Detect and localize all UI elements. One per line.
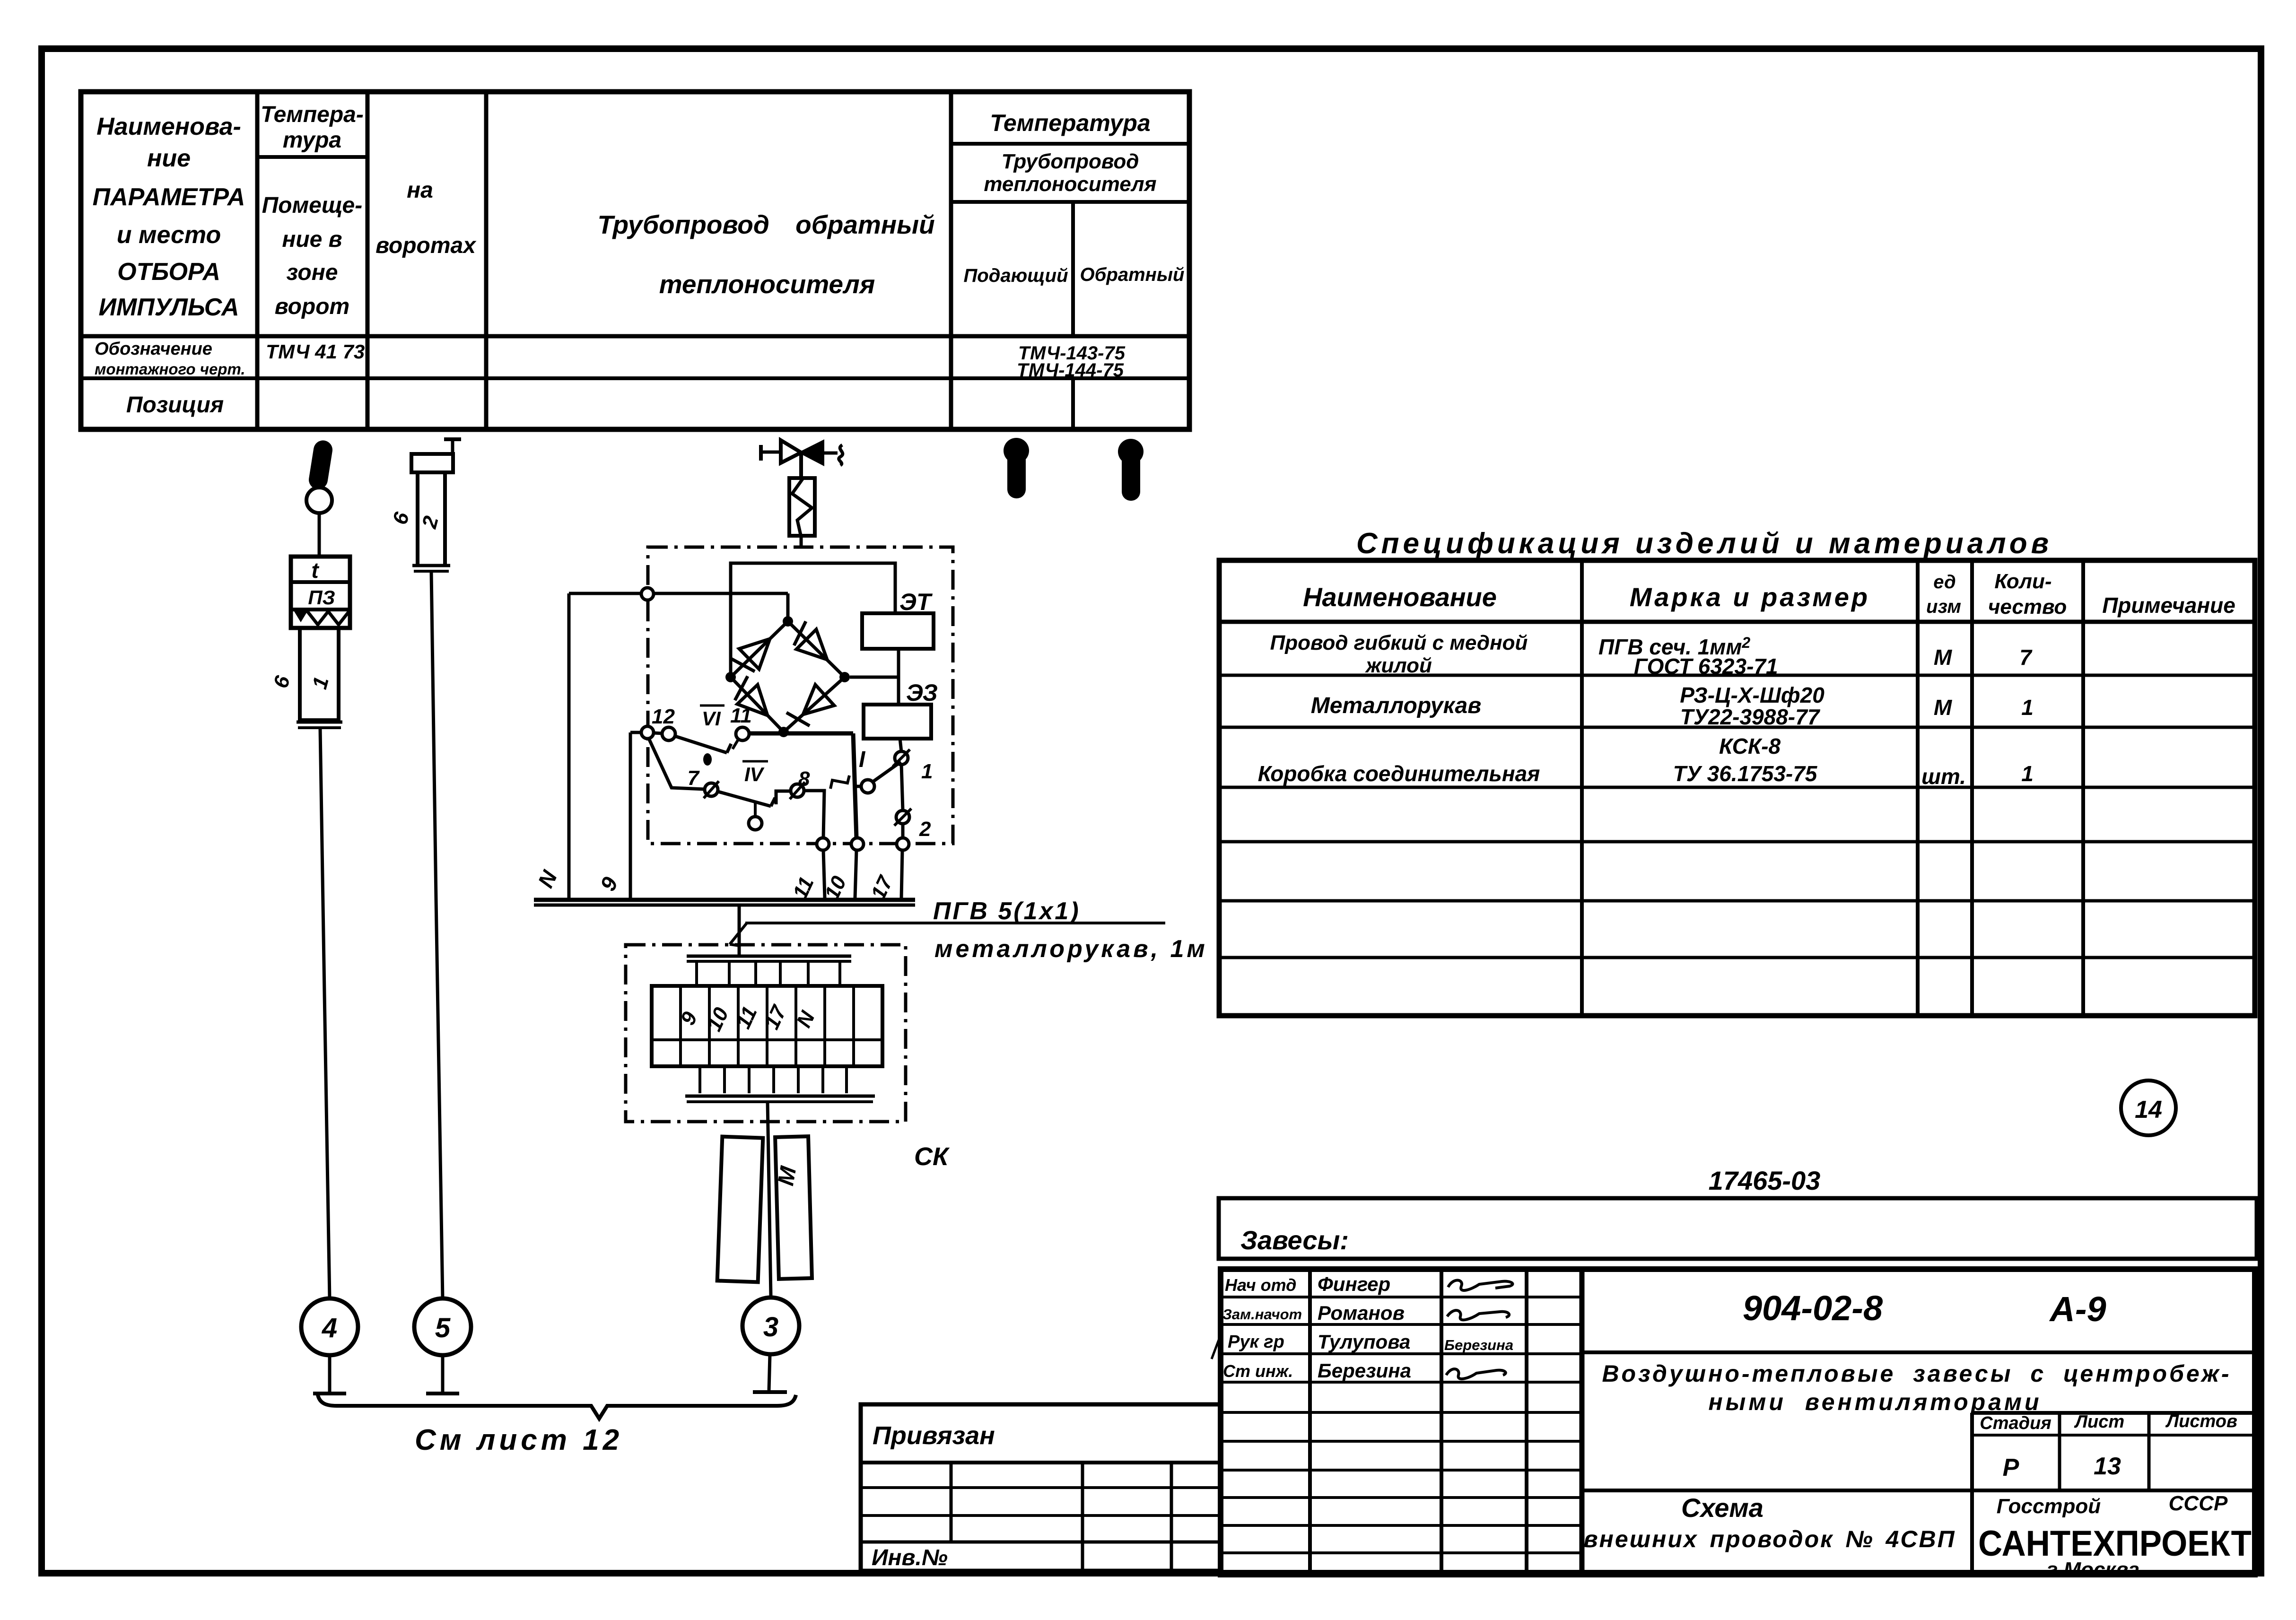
svg-text:Спецификация изделий и материа: Спецификация изделий и материалов	[1356, 527, 2052, 560]
switch I open contact	[861, 780, 874, 793]
svg-text:ПГВ 5(1х1): ПГВ 5(1х1)	[933, 897, 1081, 925]
G1: top-left parameters table	[81, 92, 1189, 429]
svg-text:7: 7	[2019, 645, 2033, 670]
G3: valve and control box schematic	[533, 440, 953, 903]
svg-text:Березина: Березина	[1444, 1337, 1513, 1353]
column line c1/c2	[255, 92, 260, 429]
wire ET to EZ	[897, 649, 900, 705]
wire to position circle 4	[320, 729, 330, 1298]
svg-text:17465-03: 17465-03	[1709, 1166, 1821, 1195]
svg-text:внешних проводок № 4СВП: внешних проводок № 4СВП	[1583, 1526, 1956, 1552]
junction 10	[851, 838, 864, 850]
col5 divider in poziciya row	[1071, 378, 1075, 429]
svg-text:11: 11	[730, 704, 752, 727]
svg-text:Привязан: Привязан	[873, 1421, 995, 1450]
G5: spec table	[1219, 527, 2255, 1016]
svg-text:Коробка соединительная: Коробка соединительная	[1258, 761, 1540, 786]
strip top stubs	[697, 961, 840, 986]
privyazan table	[861, 1404, 1221, 1571]
contact VI blade	[675, 736, 727, 753]
svg-text:зоне: зоне	[287, 260, 338, 285]
svg-text:Провод гибкий с медной: Провод гибкий с медной	[1270, 631, 1528, 654]
main contact row wire	[749, 732, 853, 736]
signature squiggle 1	[1448, 1280, 1513, 1290]
svg-text:ТУ22-3988-77: ТУ22-3988-77	[1680, 705, 1821, 729]
sensor B1 stem circle	[306, 488, 332, 513]
svg-text:I: I	[859, 747, 866, 772]
svg-text:Ст инж.: Ст инж.	[1223, 1361, 1293, 1381]
svg-text:Обратный: Обратный	[1080, 264, 1185, 285]
svg-text:тура: тура	[283, 128, 341, 153]
diode VD4 (right-bottom arm)	[803, 685, 834, 714]
svg-text:13: 13	[2094, 1453, 2121, 1480]
svg-text:ЭТ: ЭТ	[899, 589, 933, 615]
spec row 2	[1311, 683, 2034, 729]
wire 17 to bus	[901, 850, 902, 898]
wire 10 to bus	[855, 850, 856, 898]
svg-text:шт.: шт.	[1921, 764, 1966, 789]
svg-text:РЗ-Ц-Х-Шф20: РЗ-Ц-Х-Шф20	[1680, 683, 1825, 707]
svg-text:М: М	[1934, 645, 1953, 670]
svg-text:Р: Р	[2003, 1454, 2019, 1481]
svg-text:VI: VI	[702, 707, 721, 730]
position circle 14	[2121, 1080, 2176, 1135]
spec row lines	[1219, 674, 2255, 677]
wire 9 exit	[630, 731, 641, 734]
cable drop to junction box	[738, 905, 741, 956]
svg-text:Романов: Романов	[1318, 1302, 1405, 1324]
vertical to junction 10	[853, 733, 856, 838]
G2: sensors left	[269, 438, 1144, 1456]
title block frame	[1221, 1269, 2255, 1575]
valve actuator box	[789, 478, 815, 536]
junction on dash-dot edge	[641, 588, 654, 600]
small tick mark	[830, 775, 849, 789]
svg-text:ние в: ние в	[282, 227, 342, 252]
svg-text:ед: ед	[1933, 572, 1956, 592]
relay EZ box	[864, 705, 931, 739]
strip top rail	[687, 955, 851, 958]
svg-text:1: 1	[921, 760, 933, 783]
cable arrow tick	[730, 923, 747, 946]
zigzag contact symbol	[294, 611, 307, 622]
svg-text:Марка и размер: Марка и размер	[1630, 582, 1870, 612]
svg-text:Обозначение: Обозначение	[95, 339, 212, 359]
sensor B2 head box	[411, 454, 453, 472]
wire EZ to terminal 1	[900, 739, 901, 752]
svg-text:Помеще-: Помеще-	[262, 193, 362, 218]
bridge nodes	[783, 616, 793, 627]
svg-text:Примечание: Примечание	[2102, 593, 2235, 618]
stem box bottom double bar	[297, 721, 342, 724]
svg-text:СК: СК	[914, 1142, 950, 1171]
line under project number	[1582, 1350, 2255, 1354]
header bottom line	[81, 334, 1189, 339]
relay ET box	[862, 613, 934, 649]
svg-text:Трубопровод обратный: Трубопровод обратный	[597, 210, 934, 239]
svg-text:904-02-8: 904-02-8	[1743, 1289, 1883, 1328]
svg-text:1: 1	[2021, 761, 2034, 786]
junction on left dash-dot edge	[641, 726, 654, 739]
device P3 cell line 1	[291, 580, 350, 584]
diode VD3 (left-bottom arm)	[737, 685, 768, 715]
wire terminal 1 to 2	[901, 765, 903, 810]
wire top node drop	[786, 593, 790, 619]
col5 truboprovod divider	[951, 200, 1189, 204]
svg-text:ние: ние	[147, 145, 191, 172]
stub below circle 5	[441, 1355, 445, 1392]
svg-text:ГОСТ 6323-71: ГОСТ 6323-71	[1634, 654, 1778, 679]
svg-text:12: 12	[652, 705, 675, 728]
strip bottom stubs	[700, 1066, 847, 1093]
col5 podayushchiy/obratnyy divider	[1071, 202, 1075, 336]
svg-text:См лист 12: См лист 12	[415, 1424, 623, 1456]
wire strip to circle 3	[768, 1102, 771, 1297]
wire junction to contact 7	[649, 739, 705, 789]
column line c2/c3	[366, 92, 370, 429]
svg-text:Березина: Березина	[1318, 1359, 1411, 1382]
signature names	[1222, 1273, 1513, 1382]
svg-text:воротах: воротах	[375, 233, 477, 258]
row line below oboznachenie	[81, 376, 1189, 380]
sensor B2 top tee	[444, 437, 461, 441]
svg-text:Зам.начот: Зам.начот	[1222, 1306, 1302, 1323]
svg-text:ПАРАМЕТРА: ПАРАМЕТРА	[93, 183, 245, 211]
sensor stem box	[300, 628, 339, 720]
device P3 cell line 2	[291, 608, 350, 611]
contact IV middle drop	[754, 802, 757, 817]
svg-text:Наименова-: Наименова-	[96, 113, 241, 140]
svg-text:Схема: Схема	[1681, 1493, 1763, 1523]
signature section columns	[1221, 1269, 1582, 1571]
sensor B2 legs	[416, 472, 419, 565]
svg-text:Листов: Листов	[2165, 1411, 2237, 1431]
svg-text:ЭЗ: ЭЗ	[906, 679, 938, 706]
wire terminal 2 down	[901, 824, 905, 838]
column line c3/c4	[484, 92, 489, 429]
svg-text:А-9: А-9	[2049, 1289, 2106, 1329]
right lead squiggle	[839, 445, 843, 465]
svg-text:СССР: СССР	[2169, 1492, 2228, 1515]
return pipe sensor bulb	[1118, 439, 1144, 501]
svg-text:металлорукав, 1м: металлорукав, 1м	[934, 935, 1208, 963]
device P3 body	[291, 557, 350, 628]
terminal strip body	[652, 986, 882, 1066]
terminal 7	[705, 783, 718, 796]
svg-text:теплоносителя: теплоносителя	[659, 270, 875, 299]
valve body left triangle	[781, 440, 801, 463]
col5 temperatura divider	[951, 142, 1189, 146]
wire to position circle 5	[431, 572, 443, 1298]
strip bottom rail	[685, 1095, 875, 1098]
wire right node to relay column	[850, 676, 899, 679]
stadia table	[1582, 1413, 2255, 1575]
valve body right triangle	[801, 442, 823, 464]
terminal 2	[896, 810, 909, 824]
inner block top wire	[731, 563, 895, 675]
supply pipe sensor bulb	[1004, 438, 1029, 498]
svg-text:4: 4	[322, 1313, 337, 1343]
diode VD1 (left-top arm)	[739, 639, 770, 669]
valve left lead tee	[759, 445, 763, 461]
stub below circle 4	[328, 1355, 332, 1392]
svg-text:Рук гр: Рук гр	[1228, 1332, 1284, 1352]
svg-text:ТУ 36.1753-75: ТУ 36.1753-75	[1673, 761, 1818, 786]
position circle 4	[301, 1298, 358, 1355]
terminal 12	[662, 727, 675, 740]
svg-text:t: t	[311, 558, 319, 583]
position circle 5	[414, 1298, 471, 1355]
svg-text:Металлорукав: Металлорукав	[1311, 693, 1481, 718]
column line c4/c5	[949, 92, 953, 429]
leader line PGV	[745, 922, 1165, 924]
svg-text:1: 1	[2021, 695, 2034, 720]
svg-text:ПЗ: ПЗ	[308, 586, 335, 609]
svg-text:на: на	[407, 178, 433, 203]
dash-dot enclosure box	[648, 547, 953, 844]
svg-text:3: 3	[763, 1312, 778, 1342]
svg-text:Температура: Температура	[990, 110, 1151, 136]
svg-text:М: М	[1934, 695, 1953, 720]
terminal strip cell dividers	[681, 986, 854, 1066]
wire 11 to bus	[823, 850, 825, 898]
svg-text:ИМПУЛЬСА: ИМПУЛЬСА	[98, 294, 239, 321]
wire actuator to box	[800, 536, 803, 548]
svg-text:Коли-: Коли-	[1994, 570, 2052, 593]
svg-text:чество: чество	[1988, 595, 2067, 618]
switch I link to column	[854, 785, 861, 788]
spec table frame	[1219, 560, 2255, 1016]
signature squiggle 4	[1446, 1369, 1506, 1379]
svg-text:Наименование: Наименование	[1303, 582, 1497, 612]
svg-text:Завесы:: Завесы:	[1240, 1225, 1349, 1255]
svg-text:Тулупова: Тулупова	[1318, 1331, 1410, 1353]
svg-text:и место: и место	[117, 221, 221, 249]
G6: title block	[861, 1080, 2257, 1581]
svg-text:Госстрой: Госстрой	[1997, 1495, 2101, 1518]
cable bus double line	[534, 898, 915, 902]
wire N horizontal feed	[569, 592, 788, 595]
contact VI dot	[703, 753, 712, 766]
cable duct left	[717, 1137, 763, 1282]
svg-text:ОТБОРА: ОТБОРА	[117, 258, 220, 286]
step wire to terminal 8	[776, 791, 790, 804]
svg-text:14: 14	[2135, 1096, 2162, 1124]
contact IV blade	[718, 792, 771, 806]
valve right lead	[823, 452, 838, 455]
svg-text:Темпера-: Темпера-	[261, 102, 364, 127]
svg-text:ворот: ворот	[275, 294, 349, 319]
terminal 1	[895, 751, 908, 765]
bridge edges	[731, 621, 845, 732]
sensor B1 thermometer bulb	[307, 439, 334, 491]
svg-text:7: 7	[688, 766, 700, 790]
svg-text:Подающий: Подающий	[963, 265, 1068, 286]
junction box SK dash-dot outline	[626, 945, 906, 1122]
sensor B2 bottom double bar	[412, 564, 450, 567]
svg-text:5: 5	[435, 1313, 451, 1343]
switch I blade	[873, 762, 901, 782]
svg-text:Воздушно-тепловые завесы с цен: Воздушно-тепловые завесы с центробеж-	[1602, 1360, 2231, 1387]
signature rows	[1221, 1296, 1582, 1298]
table frame	[81, 92, 1189, 429]
svg-text:теплоносителя: теплоносителя	[984, 173, 1156, 196]
slash before ruk gr	[1212, 1336, 1220, 1359]
spec column lines	[1219, 560, 2255, 1016]
G4: bus and terminal strip	[534, 897, 1208, 1392]
cable duct right with M	[775, 1136, 812, 1279]
svg-text:ТМЧ-144-75: ТМЧ-144-75	[1017, 360, 1124, 381]
zavesy box	[1219, 1198, 2257, 1259]
svg-text:Инв.№: Инв.№	[872, 1545, 948, 1570]
svg-text:Нач отд: Нач отд	[1225, 1275, 1296, 1295]
spec row 1	[1270, 631, 2033, 679]
signature squiggle 2	[1447, 1310, 1509, 1320]
diode VD2 (top-right arm)	[796, 629, 827, 660]
stub below circle 3	[769, 1354, 770, 1390]
actuator zigzag	[792, 479, 812, 535]
svg-text:Позиция: Позиция	[126, 392, 224, 418]
svg-text:Фингер: Фингер	[1318, 1273, 1390, 1295]
wire 9 vertical	[629, 732, 632, 898]
terminal 8	[791, 784, 804, 797]
svg-text:изм: изм	[1926, 596, 1961, 617]
position circle 3	[742, 1298, 799, 1354]
wire N vertical	[567, 593, 571, 898]
svg-text:г Москва: г Москва	[2047, 1558, 2139, 1581]
spec row 3	[1258, 734, 2034, 789]
svg-text:Стадия: Стадия	[1980, 1413, 2051, 1433]
col2 temperatura divider	[257, 155, 367, 159]
svg-text:Трубопровод: Трубопровод	[1002, 150, 1139, 173]
svg-text:Лист: Лист	[2074, 1412, 2124, 1432]
svg-text:2: 2	[919, 818, 931, 841]
svg-text:монтажного черт.: монтажного черт.	[95, 360, 245, 378]
spec header text	[1303, 570, 2235, 618]
valve stem	[799, 453, 803, 478]
junction 17	[897, 838, 909, 850]
svg-text:жилой: жилой	[1365, 654, 1432, 677]
brace line see sheet 12	[318, 1395, 796, 1419]
wire bulb to device P3	[318, 513, 321, 557]
svg-text:ТМЧ 41 73: ТМЧ 41 73	[266, 340, 365, 363]
svg-text:КСК-8: КСК-8	[1719, 734, 1781, 758]
junction 11	[817, 838, 829, 850]
terminal 11	[736, 727, 749, 740]
svg-text:IV: IV	[744, 763, 765, 785]
svg-text:8: 8	[798, 767, 810, 791]
wire 8 to junction 11	[804, 791, 824, 838]
spec header line	[1219, 620, 2255, 624]
